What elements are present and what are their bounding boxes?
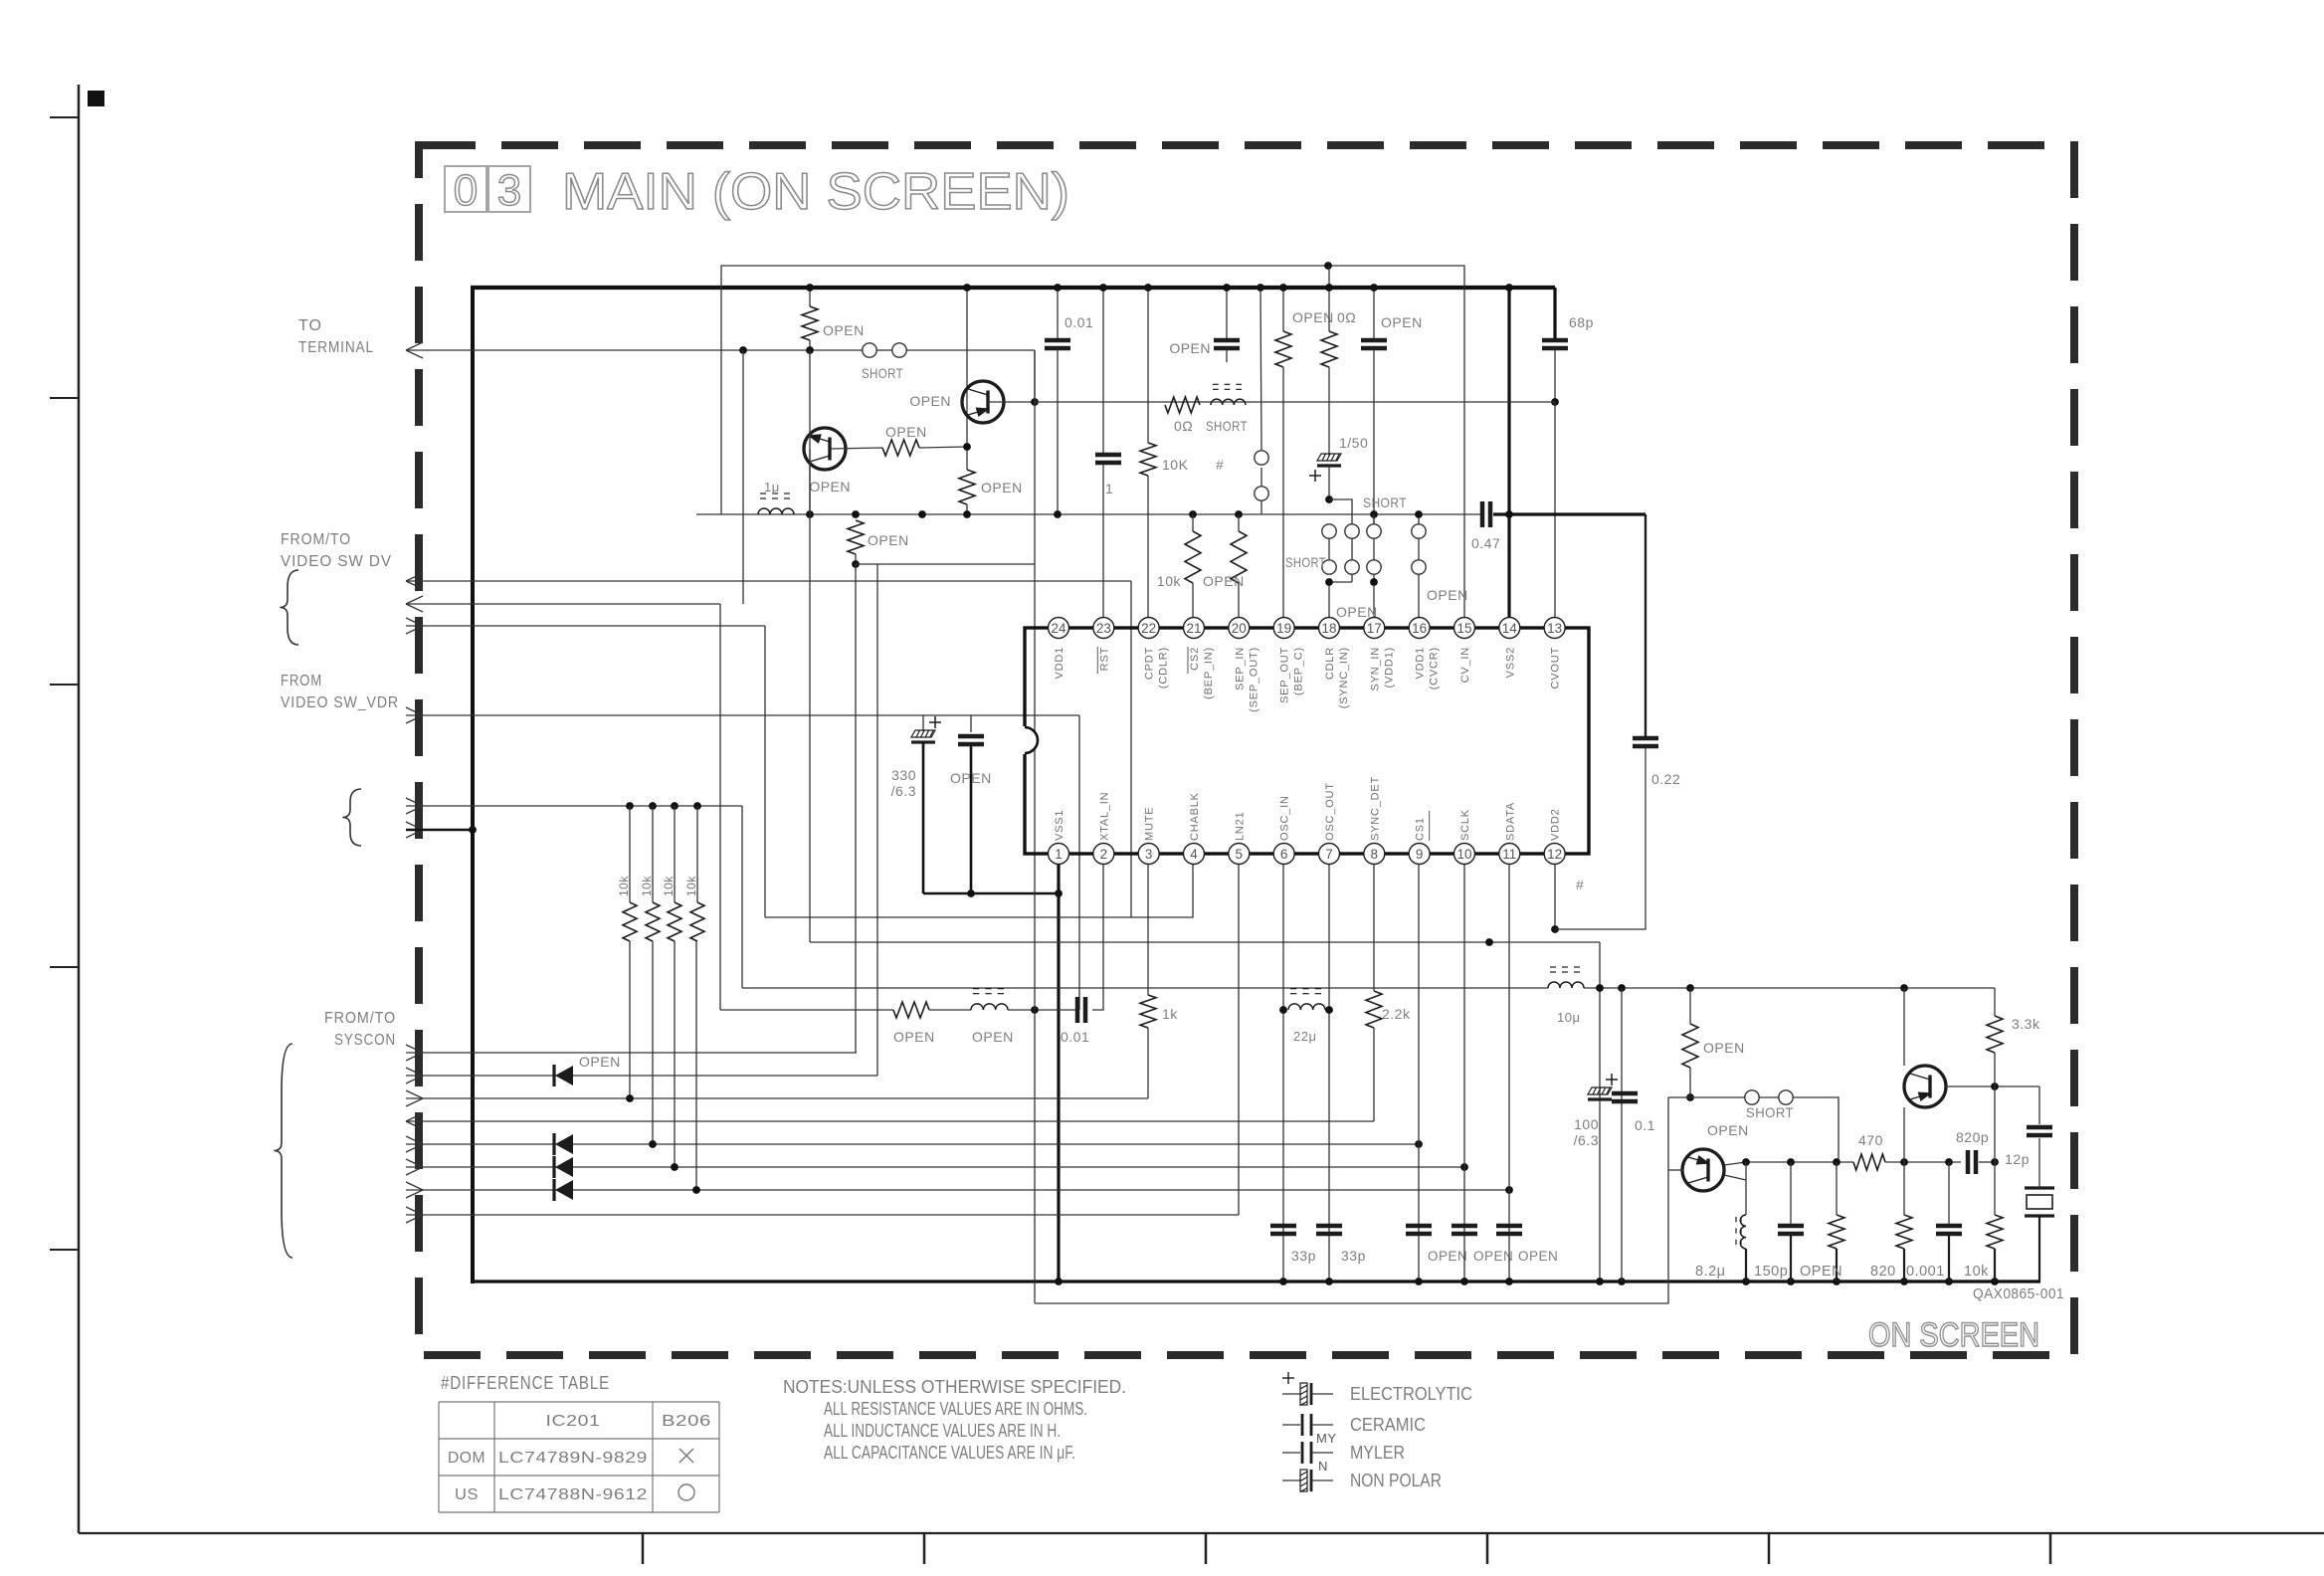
svg-text:21: 21 [1186,621,1201,636]
svg-text:OSC_IN: OSC_IN [1279,795,1291,841]
svg-text:1: 1 [1055,847,1063,862]
svg-text:/6.3: /6.3 [1574,1132,1599,1148]
svg-text:IC201: IC201 [546,1413,601,1430]
svg-text:#: # [1216,457,1224,473]
svg-text:VSS1: VSS1 [1054,810,1065,841]
svg-text:3: 3 [497,166,521,215]
svg-text:(BEP_C): (BEP_C) [1293,647,1305,695]
svg-text:(SYNC_IN): (SYNC_IN) [1338,647,1350,708]
svg-text:OPEN: OPEN [809,479,851,494]
svg-text:SEP_OUT: SEP_OUT [1279,647,1291,703]
svg-text:LC74789N-9829: LC74789N-9829 [498,1450,648,1467]
svg-text:24: 24 [1051,621,1066,636]
svg-text:ELECTROLYTIC: ELECTROLYTIC [1350,1384,1472,1404]
svg-text:16: 16 [1412,621,1427,636]
svg-text:FROM/TO: FROM/TO [281,531,351,548]
svg-text:SHORT: SHORT [1285,554,1326,570]
svg-text:OPEN: OPEN [972,1029,1014,1045]
svg-text:820: 820 [1870,1264,1896,1280]
svg-text:0.47: 0.47 [1471,535,1500,551]
svg-text:1μ: 1μ [764,480,780,494]
svg-text:(BEP_IN): (BEP_IN) [1203,647,1215,699]
svg-text:DOM: DOM [448,1450,485,1467]
svg-text:2: 2 [1100,847,1108,862]
svg-text:OPEN: OPEN [1427,587,1468,603]
svg-text:LN21: LN21 [1234,812,1246,842]
svg-text:1/50: 1/50 [1339,435,1368,451]
svg-text:150p: 150p [1754,1264,1788,1280]
svg-text:22: 22 [1141,621,1156,636]
svg-text:820p: 820p [1956,1129,1989,1145]
svg-text:19: 19 [1276,621,1291,636]
svg-text:CV_IN: CV_IN [1459,647,1471,683]
svg-text:LC74788N-9612: LC74788N-9612 [498,1486,648,1503]
svg-text:CS1: CS1 [1415,817,1427,841]
svg-text:ALL CAPACITANCE VALUES ARE IN: ALL CAPACITANCE VALUES ARE IN μF. [824,1443,1075,1463]
svg-text:SCLK: SCLK [1459,809,1471,841]
svg-text:MYLER: MYLER [1350,1443,1405,1463]
svg-text:OPEN: OPEN [1381,314,1423,330]
svg-text:10K: 10K [1162,457,1189,473]
svg-text:OSC_OUT: OSC_OUT [1324,782,1336,841]
svg-text:6: 6 [1280,847,1288,862]
svg-text:FROM: FROM [281,673,322,689]
svg-text:SHORT: SHORT [862,365,903,381]
svg-text:12: 12 [1547,847,1562,862]
svg-text:OPEN: OPEN [1473,1249,1513,1264]
svg-text:CVOUT: CVOUT [1550,647,1562,689]
svg-text:9: 9 [1416,847,1424,862]
svg-text:23: 23 [1096,621,1111,636]
svg-text:SDATA: SDATA [1504,802,1516,841]
svg-text:10: 10 [1456,847,1471,862]
svg-text:SHORT: SHORT [1363,494,1407,510]
svg-text:OPEN: OPEN [885,424,927,440]
svg-text:470: 470 [1858,1132,1883,1148]
svg-text:OPEN: OPEN [893,1029,935,1045]
svg-text:OPEN: OPEN [909,393,951,409]
svg-text:(SEP_OUT): (SEP_OUT) [1248,647,1259,712]
svg-text:FROM/TO: FROM/TO [324,1010,396,1027]
svg-text:20: 20 [1232,621,1247,636]
svg-text:12p: 12p [2005,1151,2030,1167]
svg-text:11: 11 [1502,847,1516,862]
svg-text:10k: 10k [1964,1264,1989,1280]
svg-text:4: 4 [1190,847,1198,862]
svg-text:OPEN: OPEN [868,532,909,548]
svg-text:10k: 10k [684,876,698,896]
svg-text:OPEN: OPEN [950,770,992,786]
svg-text:OPEN: OPEN [1707,1122,1749,1138]
svg-text:100: 100 [1574,1116,1599,1132]
svg-text:VDD1: VDD1 [1054,647,1065,680]
svg-text:3.3k: 3.3k [2012,1016,2040,1032]
svg-text:CHABLK: CHABLK [1189,792,1201,841]
svg-text:NON POLAR: NON POLAR [1350,1471,1442,1490]
svg-text:#: # [1576,877,1584,892]
svg-text:OPEN: OPEN [1800,1264,1842,1280]
svg-text:OPEN: OPEN [579,1054,621,1070]
svg-text:8.2μ: 8.2μ [1695,1264,1726,1280]
svg-text:7: 7 [1325,847,1333,862]
svg-text:ALL INDUCTANCE VALUES ARE IN H: ALL INDUCTANCE VALUES ARE IN H. [824,1421,1061,1441]
svg-text:1: 1 [1105,481,1113,496]
svg-text:OPEN: OPEN [981,480,1023,495]
svg-text:8: 8 [1371,847,1379,862]
svg-text:(CDLR): (CDLR) [1158,647,1170,689]
svg-text:ON SCREEN: ON SCREEN [1868,1316,2039,1354]
svg-text:SYN_IN: SYN_IN [1369,647,1381,691]
svg-text:SEP_IN: SEP_IN [1234,647,1246,690]
svg-text:33p: 33p [1341,1248,1366,1264]
svg-text:(VDD1): (VDD1) [1383,647,1395,688]
svg-text:OPEN: OPEN [823,322,865,338]
svg-text:3: 3 [1145,847,1153,862]
svg-text:0.001: 0.001 [1906,1264,1945,1280]
svg-text:OPEN: OPEN [1292,309,1334,325]
svg-text:ALL RESISTANCE VALUES ARE IN O: ALL RESISTANCE VALUES ARE IN OHMS. [824,1399,1087,1419]
svg-text:10k: 10k [640,876,654,896]
svg-text:0: 0 [454,166,478,215]
svg-text:TO: TO [298,317,322,334]
svg-text:TERMINAL: TERMINAL [298,339,374,356]
svg-text:VDD1: VDD1 [1415,647,1427,680]
svg-text:33p: 33p [1291,1248,1316,1264]
svg-text:10μ: 10μ [1557,1010,1580,1025]
svg-text:10k: 10k [1157,573,1182,589]
svg-text:15: 15 [1456,621,1471,636]
svg-text:10k: 10k [662,876,676,896]
svg-text:SHORT: SHORT [1206,418,1248,434]
svg-text:VIDEO SW_VDR: VIDEO SW_VDR [281,694,399,711]
svg-text:N: N [1318,1459,1328,1474]
svg-text:0Ω: 0Ω [1337,309,1356,325]
svg-text:VIDEO SW DV: VIDEO SW DV [281,553,392,570]
svg-text:US: US [455,1486,479,1503]
svg-text:(CVCR): (CVCR) [1429,647,1441,689]
svg-text:1k: 1k [1162,1006,1178,1022]
svg-text:MAIN (ON SCREEN): MAIN (ON SCREEN) [562,163,1069,221]
svg-text:OPEN: OPEN [1169,340,1211,356]
svg-text:VSS2: VSS2 [1504,647,1516,678]
svg-text:0.22: 0.22 [1651,771,1680,787]
svg-text:68p: 68p [1569,314,1594,330]
svg-text:OPEN: OPEN [1203,573,1245,589]
svg-text:MY: MY [1316,1431,1337,1446]
svg-text:#DIFFERENCE TABLE: #DIFFERENCE TABLE [441,1373,610,1393]
svg-text:NOTES:UNLESS OTHERWISE SPECIFI: NOTES:UNLESS OTHERWISE SPECIFIED. [783,1377,1126,1397]
svg-text:13: 13 [1547,621,1562,636]
svg-text:QAX0865-001: QAX0865-001 [1973,1285,2064,1302]
svg-text:0Ω: 0Ω [1174,418,1193,434]
svg-text:SHORT: SHORT [1746,1104,1794,1120]
svg-text:18: 18 [1321,621,1336,636]
svg-text:5: 5 [1236,847,1244,862]
svg-text:CDLR: CDLR [1324,647,1336,680]
svg-text:OPEN: OPEN [1518,1249,1558,1264]
svg-text:17: 17 [1367,621,1382,636]
svg-text:CERAMIC: CERAMIC [1350,1415,1426,1435]
svg-text:VDD2: VDD2 [1550,808,1562,841]
svg-text:OPEN: OPEN [1703,1040,1745,1056]
svg-text:CPDT: CPDT [1144,647,1156,680]
svg-text:14: 14 [1502,621,1518,636]
svg-text:CS2: CS2 [1189,647,1201,671]
svg-text:B206: B206 [662,1413,711,1430]
svg-text:0.01: 0.01 [1061,1029,1089,1045]
svg-text:XTAL_IN: XTAL_IN [1098,792,1110,841]
svg-text:SYSCON: SYSCON [334,1032,396,1049]
svg-text:SYNC_DET: SYNC_DET [1369,776,1381,841]
svg-text:MUTE: MUTE [1144,807,1156,841]
svg-text:2.2k: 2.2k [1382,1006,1411,1022]
svg-text:330: 330 [891,767,916,783]
svg-text:/6.3: /6.3 [891,783,916,799]
svg-text:10k: 10k [617,876,631,896]
svg-text:OPEN: OPEN [1428,1249,1467,1264]
svg-text:0.1: 0.1 [1635,1117,1655,1133]
svg-text:22μ: 22μ [1293,1029,1316,1044]
svg-text:0.01: 0.01 [1065,314,1093,330]
svg-text:RST: RST [1098,647,1110,671]
